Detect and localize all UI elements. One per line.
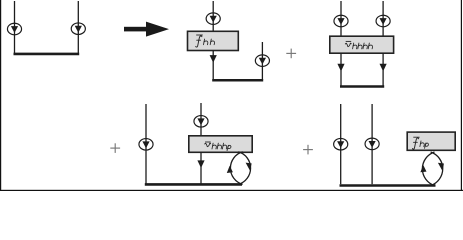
plus sign 2	[110, 143, 120, 153]
node: arrow circle on term3 left line	[139, 139, 153, 151]
frame left border	[0, 0, 1, 191]
node: arrow circle on right line	[71, 23, 85, 35]
box U2: vbar_hhhh vertex	[330, 36, 394, 53]
box U4: fbar_hp vertex	[407, 132, 455, 150]
loop bubble of term4	[422, 152, 442, 186]
term 2: left incoming hole line	[340, 1, 342, 36]
wire: left diagram right hole line	[77, 1, 79, 54]
box U1: fbar_hh vertex	[188, 31, 239, 50]
wire: term1 right stub line	[261, 42, 263, 80]
wire: term3 outgoing line with down arrow	[197, 152, 204, 184]
down arrowhead on term4 bubble right arc	[438, 163, 444, 172]
loop bubble of term3	[230, 152, 250, 185]
term 3: incoming line to box	[200, 103, 202, 136]
wire: left diagram left hole line	[14, 1, 16, 54]
frame right border	[461, 0, 462, 191]
box U3: vbar_hhhp vertex	[189, 136, 252, 153]
node: arrow circle on left line	[7, 23, 21, 35]
term 4: right hole line	[371, 104, 373, 184]
plus sign 1	[286, 49, 296, 59]
term 4: left hole line	[340, 104, 342, 184]
wire: term2 right outgoing line with down arrow	[380, 53, 387, 86]
plus sign 3	[303, 145, 313, 155]
wire: term4 bottom line	[340, 184, 436, 187]
big implication arrow	[124, 22, 169, 37]
wire: left diagram bottom bracket	[14, 53, 80, 56]
up arrowhead on term4 bubble left arc	[420, 165, 426, 172]
term 1: incoming hole line	[212, 1, 214, 32]
down arrowhead on term3 bubble right arc	[246, 163, 252, 172]
node: arrow circle on term1 incoming line	[206, 13, 220, 25]
wire: term2 bottom line	[340, 85, 384, 88]
term 2: right incoming hole line	[382, 1, 384, 36]
node: arrow circle on term2 right line	[376, 15, 390, 27]
node: arrow circle on term1 right stub	[255, 55, 269, 67]
node: arrow circle on term4 left line	[334, 138, 348, 150]
node: arrow circle on term2 left line	[334, 15, 348, 27]
up arrowhead on term3 bubble left arc	[227, 166, 233, 173]
wire: term1 bottom line	[212, 79, 263, 82]
wire: term1 outgoing line with down arrow	[210, 51, 217, 81]
node: arrow circle on term4 right line	[365, 138, 379, 150]
wire: term2 left outgoing line with down arrow	[337, 53, 344, 86]
node: arrow circle on term3 incoming line	[194, 116, 208, 128]
term 3: left hole line	[145, 104, 147, 184]
frame bottom border	[0, 190, 463, 191]
wire: term3 bottom line	[145, 183, 242, 186]
